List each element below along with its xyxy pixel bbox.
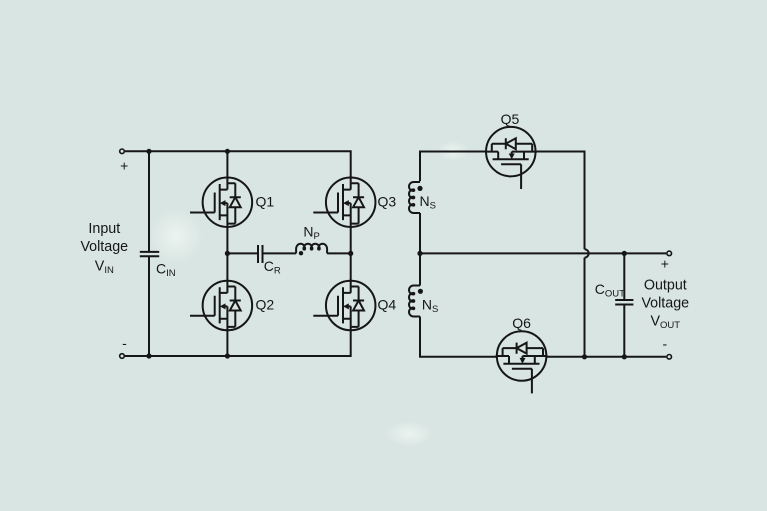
wire: node B to Q4 drain bbox=[350, 253, 352, 281]
junction: COUT bottom bbox=[622, 354, 627, 359]
junction: Q1 drain at top rail bbox=[225, 149, 230, 154]
polarity dot NS top bbox=[417, 186, 422, 191]
wire hop: Q5 vertical crosses + rail bbox=[585, 249, 589, 257]
wire: CR to NP bbox=[263, 252, 296, 254]
svg-text:VOUT: VOUT bbox=[650, 314, 680, 332]
transistor Q3 bbox=[313, 176, 375, 228]
svg-text:Input: Input bbox=[88, 221, 120, 237]
svg-text:COUT: COUT bbox=[595, 281, 625, 300]
capacitor COUT bbox=[615, 253, 633, 356]
svg-text:+: + bbox=[120, 158, 128, 174]
output terminal - (right bottom) bbox=[667, 355, 672, 360]
transistor Q5 bbox=[485, 127, 537, 189]
wire: node A to CR bbox=[227, 252, 257, 254]
wire: Q5 source to right vertical bbox=[536, 152, 585, 250]
svg-text:VIN: VIN bbox=[95, 259, 114, 277]
inductor NS top (secondary winding 1) bbox=[409, 182, 420, 213]
svg-text:Q1: Q1 bbox=[256, 194, 275, 210]
wire: top rail from input+ to Q3 drain bbox=[125, 151, 351, 177]
svg-text:Q2: Q2 bbox=[256, 297, 275, 313]
input terminal - (bottom left) bbox=[120, 354, 125, 359]
wire: Q6 source to node D bbox=[547, 356, 585, 358]
svg-text:-: - bbox=[662, 336, 667, 352]
svg-text:Q6: Q6 bbox=[512, 315, 531, 331]
svg-text:CR: CR bbox=[264, 258, 281, 277]
capacitor CR bbox=[258, 245, 263, 263]
wire: secondary top loop left (NS top to Q5 drain) bbox=[420, 152, 486, 182]
wire: NS top to node C bbox=[419, 213, 421, 253]
input terminal + (top left) bbox=[120, 149, 125, 154]
junction: node C (secondary midpoint) bbox=[417, 251, 422, 256]
svg-text:+: + bbox=[661, 256, 669, 272]
svg-text:Q3: Q3 bbox=[378, 194, 397, 210]
wire: bottom rail from input- to Q4 source bbox=[125, 330, 351, 356]
inductor NS bottom (secondary winding 2) bbox=[409, 286, 420, 317]
svg-text:Q5: Q5 bbox=[501, 111, 520, 127]
junction: COUT top bbox=[622, 251, 627, 256]
polarity dot NP bbox=[299, 251, 303, 255]
wire: Q2 source to bottom rail bbox=[226, 330, 228, 356]
svg-text:Output: Output bbox=[644, 278, 687, 294]
wire: NS bottom to bottom rail / Q6 drain bbox=[420, 317, 497, 357]
polarity dot NS bottom bbox=[418, 289, 423, 294]
wire: + output rail bbox=[420, 252, 666, 254]
junction: Q2 source at bottom rail bbox=[225, 353, 230, 358]
junction: node A (left bridge midpoint) bbox=[225, 251, 230, 256]
svg-text:Voltage: Voltage bbox=[80, 239, 128, 255]
transistor Q6 bbox=[496, 331, 548, 393]
wire: vertical down to node D bbox=[584, 258, 586, 357]
junction: CIN top bbox=[146, 149, 151, 154]
wire: Q1 drain leg bbox=[226, 151, 228, 178]
wire: bottom output rail bbox=[585, 356, 667, 358]
junction: CIN bottom bbox=[146, 353, 151, 358]
svg-text:Voltage: Voltage bbox=[641, 296, 689, 312]
inductor NP (transformer primary winding) bbox=[296, 244, 327, 254]
junction: node D (Q5 return at bottom rail) bbox=[582, 354, 587, 359]
svg-text:Q4: Q4 bbox=[378, 297, 397, 313]
svg-text:NS: NS bbox=[422, 297, 438, 316]
wire: node A to Q2 drain bbox=[226, 253, 228, 281]
wire: node C to NS bottom bbox=[419, 253, 421, 285]
wire: Q3 source to node B bbox=[350, 227, 352, 254]
wire: Q1 source to node A bbox=[226, 227, 228, 254]
output terminal + (right top) bbox=[667, 251, 672, 256]
capacitor CIN bbox=[140, 151, 159, 356]
svg-text:NS: NS bbox=[420, 193, 436, 212]
svg-text:-: - bbox=[122, 335, 127, 351]
svg-text:NP: NP bbox=[303, 224, 319, 243]
transistor Q1 bbox=[190, 176, 252, 228]
transistor Q2 bbox=[190, 280, 252, 332]
junction: node B (right bridge midpoint) bbox=[348, 251, 353, 256]
wire: NP to node B bbox=[327, 252, 351, 254]
transistor Q4 bbox=[313, 280, 375, 332]
